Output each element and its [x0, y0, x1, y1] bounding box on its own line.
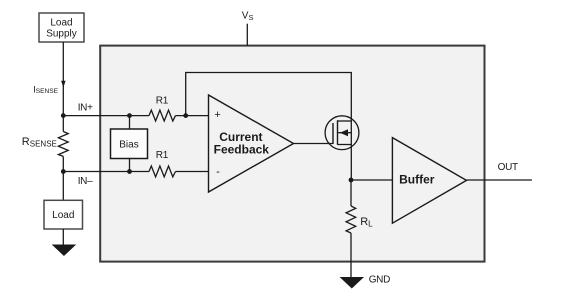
- junction dot Bias top: [127, 113, 132, 118]
- buffer amplifier: [392, 138, 466, 224]
- svg-text:IN+: IN+: [78, 103, 93, 114]
- wire Load box to ground: [62, 229, 64, 245]
- wire IN+ line to op-amp: [63, 115, 208, 117]
- svg-text:IN–: IN–: [78, 176, 93, 187]
- IN+ label: [78, 103, 93, 114]
- resistor R1 (top): [149, 110, 176, 121]
- svg-text:Supply: Supply: [46, 29, 77, 40]
- svg-text:ISENSE: ISENSE: [33, 84, 58, 95]
- Load box: [44, 200, 83, 229]
- Load Supply box: [39, 13, 84, 42]
- IC boundary box: [100, 46, 484, 262]
- Bias box: [111, 129, 148, 159]
- wire op-amp output to MOSFET gate: [294, 143, 334, 145]
- supply node VS label: [242, 10, 254, 22]
- IN- label: [78, 176, 93, 187]
- transistor Q1 MOSFET: [325, 116, 359, 150]
- svg-text:Buffer: Buffer: [399, 172, 435, 186]
- ISENSE current arrow: [61, 81, 66, 88]
- junction dot output node: [349, 178, 354, 183]
- RL label: [360, 216, 373, 228]
- svg-text:+: +: [214, 109, 220, 121]
- ground symbol (GND): [340, 277, 364, 289]
- svg-text:-: -: [216, 166, 220, 178]
- svg-text:VS: VS: [242, 10, 254, 22]
- resistor RSENSE: [58, 116, 68, 172]
- junction dot Bias bottom: [127, 169, 132, 174]
- ISENSE label: [33, 84, 58, 95]
- wire MOSFET source to output node: [350, 121, 352, 180]
- svg-text:Bias: Bias: [119, 139, 138, 150]
- node IN+ junction dot: [61, 113, 66, 118]
- wire IN- node to Load box: [62, 172, 64, 201]
- wire node to buffer input: [351, 179, 393, 181]
- wire IN- line to op-amp: [63, 171, 208, 173]
- RSENSE label: [22, 136, 57, 148]
- svg-text:Load: Load: [50, 17, 72, 28]
- svg-text:Feedback: Feedback: [214, 142, 270, 156]
- wire VS to box top: [246, 24, 248, 46]
- svg-text:R1: R1: [156, 150, 169, 161]
- resistor R1 (bottom): [149, 166, 176, 177]
- wire feedback path to MOSFET drain: [186, 73, 352, 122]
- svg-text:Load: Load: [52, 210, 74, 221]
- svg-text:RSENSE: RSENSE: [22, 136, 57, 148]
- R1 bottom label: [156, 150, 169, 161]
- R1 top label: [156, 96, 169, 107]
- svg-text:R1: R1: [156, 96, 169, 107]
- ground symbol (left): [52, 245, 76, 257]
- op-amp U1 Current Feedback: [209, 95, 294, 192]
- wire Bias to IN+ line: [129, 116, 131, 129]
- node IN- junction dot: [61, 169, 66, 174]
- wire Load Supply to IN+ node: [62, 42, 64, 116]
- svg-text:OUT: OUT: [498, 162, 518, 173]
- wire buffer output to OUT: [467, 179, 532, 181]
- OUT label: [498, 162, 518, 173]
- svg-text:GND: GND: [369, 274, 390, 285]
- wire Bias to IN- line: [129, 159, 131, 172]
- junction dot feedback node: [183, 113, 188, 118]
- GND label: [369, 274, 390, 285]
- resistor RL: [346, 180, 356, 277]
